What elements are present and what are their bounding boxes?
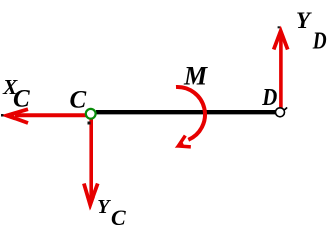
- svg-text:D: D: [261, 83, 277, 110]
- pin circle C (green): [86, 109, 96, 119]
- moment arc M: [176, 87, 205, 140]
- svg-text:C: C: [111, 205, 126, 230]
- svg-text:C: C: [70, 86, 87, 113]
- pin circle D: [276, 108, 285, 117]
- svg-text:Y: Y: [97, 196, 111, 218]
- arrowhead Y_C (points down): [84, 184, 98, 210]
- tick at D circle: [284, 107, 288, 110]
- svg-text:Y: Y: [296, 8, 312, 33]
- wire: Y_C arrow shaft: [89, 116, 93, 198]
- tip speck X_C: [1, 114, 4, 117]
- tip speck Y_D: [278, 26, 280, 28]
- wire: X_C arrow shaft: [15, 113, 86, 117]
- wire: Y_D arrow shaft: [279, 38, 283, 108]
- arrowhead Y_D (points up): [274, 26, 288, 49]
- speck below C: [88, 122, 91, 125]
- svg-text:C: C: [13, 86, 30, 113]
- arrowhead of moment arc (points down-left): [172, 136, 191, 154]
- svg-text:M: M: [183, 61, 208, 90]
- arrowhead X_C (points left): [2, 109, 28, 123]
- beam C-D: [96, 110, 276, 114]
- svg-text:D: D: [312, 28, 327, 55]
